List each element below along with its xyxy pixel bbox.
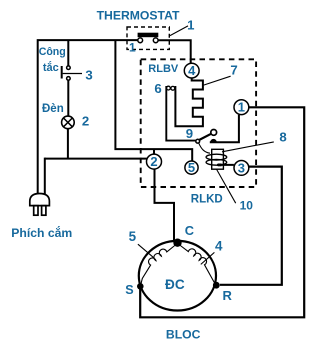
svg-text:5: 5 [188,160,195,175]
relay RLKD core [212,149,224,169]
wire terminal 2 down to motor C [155,169,175,240]
svg-text:5: 5 [129,229,137,244]
wire RLKD to terminal 3 [217,164,234,166]
svg-text:1: 1 [238,100,245,115]
svg-text:1: 1 [129,41,136,55]
node R [213,282,220,289]
svg-text:7: 7 [230,63,237,78]
plug body [30,194,50,206]
svg-text:BLOC: BLOC [166,327,201,341]
svg-text:4: 4 [215,239,223,254]
svg-text:6: 6 [154,81,161,96]
winding start (5) C to S [141,245,176,286]
wire terminal 3 to motor R [220,167,282,285]
svg-text:C: C [185,223,194,238]
leader to label 1 thermostat [170,26,188,36]
plug prong right [42,206,46,216]
wire lamp to bus [67,128,69,158]
node S [137,283,144,290]
wire contact 8 to terminal 1 [210,115,239,143]
coil 6 right stem top [174,86,176,91]
svg-text:Công: Công [39,46,66,58]
leader to label 5 winding [138,244,154,257]
winding run (4) C to R [179,245,216,285]
lever 9 arm [199,134,211,140]
leader to label 10 [217,169,236,203]
wire top-left corner: left vertical to plug + top horizontal to thermostat [38,40,138,194]
svg-text:THERMOSTAT: THERMOSTAT [97,9,180,23]
lever 9 tip ring [211,130,217,136]
terminal circle 2 [147,154,162,169]
svg-text:tắc: tắc [43,61,59,74]
svg-text:3: 3 [238,160,245,175]
wire switch branch from top wire [67,40,69,66]
svg-text:RLBV: RLBV [148,63,179,75]
svg-text:1: 1 [187,18,194,33]
thermostat contact left [138,38,143,43]
relay RLKD coil loops [206,154,227,160]
svg-text:Phích cắm: Phích cắm [11,225,72,240]
svg-text:9: 9 [186,126,193,141]
thermostat bimetal bar [138,33,159,38]
thermostat box [127,27,169,49]
svg-text:8: 8 [279,129,286,144]
wire from top wire down and across to terminal 5 [115,40,192,161]
svg-text:2: 2 [82,114,89,129]
motor DC body [139,241,216,311]
svg-text:3: 3 [85,67,92,82]
switch contact bottom [67,77,71,81]
wire lever to RLKD coil [199,143,210,153]
leader to label 8 [222,142,274,152]
switch actuator line to 3 [63,73,82,75]
lever 9 pivot [196,139,200,143]
terminal circle 3 [234,161,249,176]
coil 6 left stem down to lever pivot [166,86,196,141]
lamp Den [62,116,75,129]
wire bus from plug to terminal 2 [45,158,149,160]
svg-text:S: S [125,283,133,297]
switch contact top [67,66,71,70]
resistor 7 zigzag from terminal 4 [175,78,203,126]
svg-text:Đèn: Đèn [42,103,64,115]
RLKD exit blob [218,164,222,167]
node C [173,239,181,247]
svg-text:10: 10 [240,198,254,212]
terminal circle 1 [234,100,249,115]
terminal circle 4 [184,63,199,78]
terminal circle 5 [185,161,198,174]
switch (Cong tac) lever bar [61,66,63,79]
svg-text:R: R [223,288,233,303]
svg-text:ĐC: ĐC [165,277,185,292]
leader to label 7 [204,76,231,85]
wire thermostat right contact to terminal 4 [158,40,191,63]
svg-text:4: 4 [188,63,196,78]
relay RLBV box [141,59,256,187]
wire plug right conductor [44,158,46,194]
leader to label 4 winding [201,252,215,264]
svg-text:RLKD: RLKD [191,193,223,205]
svg-text:2: 2 [150,154,157,169]
wire switch bottom to lamp [67,80,69,116]
thermostat contact right [153,38,158,43]
coil 6 loops [167,86,171,90]
plug prong left [34,206,38,216]
wire terminal 1 right and around BLOC [140,107,304,317]
contact 8 dome [210,139,217,142]
wire terminal 2 stub up [153,149,155,155]
